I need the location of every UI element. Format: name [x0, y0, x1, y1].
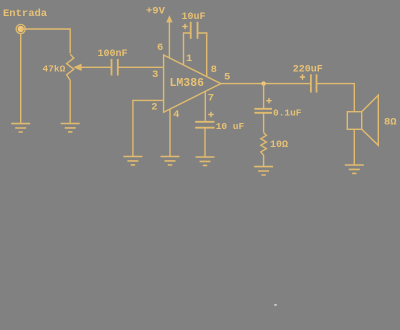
svg-text:7: 7 [208, 92, 214, 104]
svg-text:100nF: 100nF [98, 49, 128, 60]
svg-text:10 uF: 10 uF [216, 121, 245, 132]
svg-text:2: 2 [151, 102, 157, 114]
svg-text:3: 3 [152, 69, 158, 81]
svg-text:220uF: 220uF [293, 65, 323, 76]
svg-text:6: 6 [157, 42, 163, 54]
svg-text:8Ω: 8Ω [384, 116, 397, 128]
svg-text:5: 5 [224, 72, 230, 84]
svg-text:LM386: LM386 [170, 77, 205, 90]
svg-text:Entrada: Entrada [3, 8, 48, 20]
svg-text:10Ω: 10Ω [270, 140, 288, 151]
svg-text:10uF: 10uF [182, 12, 206, 23]
svg-text:1: 1 [186, 53, 192, 65]
svg-text:0.1uF: 0.1uF [273, 108, 302, 119]
svg-text:4: 4 [173, 109, 179, 121]
svg-text:8: 8 [211, 64, 217, 76]
svg-text:47kΩ: 47kΩ [43, 64, 66, 75]
svg-text:+9V: +9V [146, 6, 166, 18]
